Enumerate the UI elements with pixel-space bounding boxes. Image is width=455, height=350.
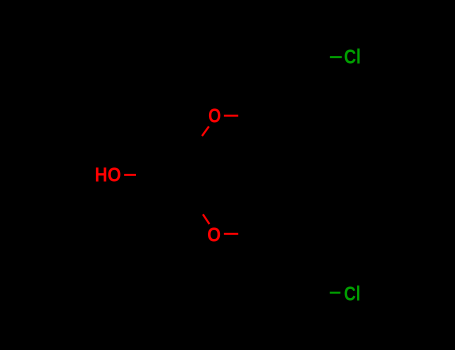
- bond ring-O bottom (oxygen half, diagonal): [203, 214, 210, 224]
- bond C-Cl top (chlorine half): [330, 56, 342, 58]
- svg-text:Cl: Cl: [344, 46, 361, 68]
- bond O-CH2 bottom (oxygen half, horizontal): [224, 233, 238, 235]
- svg-text:HO: HO: [95, 164, 121, 186]
- bond C-Cl bottom (chlorine half): [330, 292, 341, 294]
- svg-text:O: O: [207, 224, 221, 246]
- bond ring-O top (oxygen half, diagonal): [202, 126, 209, 136]
- bond HO-ring (oxygen half): [124, 174, 136, 176]
- svg-text:O: O: [208, 106, 221, 128]
- svg-text:Cl: Cl: [344, 284, 360, 306]
- bond O-CH2 top (oxygen half, horizontal): [224, 115, 238, 117]
